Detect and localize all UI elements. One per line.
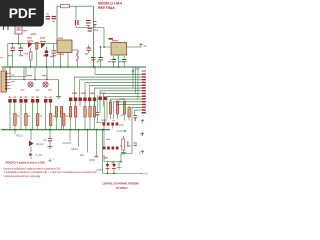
wire OK8 drop: [104, 126, 113, 147]
diode D7: [94, 22, 97, 25]
wire left vertical: [56, 6, 58, 44]
PDF badge: [0, 0, 44, 27]
resistor R1: [61, 5, 77, 20]
svg-text:GP1: GP1: [119, 124, 125, 127]
wire mid rail: [8, 43, 58, 45]
svg-text:Este tipo de configuração é us: Este tipo de configuração é usada para r…: [4, 166, 62, 170]
ground symbol in note header: [48, 159, 54, 162]
optocoupler OK4: [69, 98, 77, 102]
ground symbol in note line2: [45, 171, 48, 173]
junction dots ground bus: [9, 66, 119, 68]
label C6 value: [85, 53, 89, 54]
svg-text:+5V: +5V: [120, 113, 125, 117]
wire drops from ground bus: [10, 67, 47, 80]
wire stub arrow A: [116, 130, 126, 132]
capacitor C6b: [91, 58, 96, 68]
label K1 ref: [23, 30, 37, 35]
capacitor C7: [112, 56, 117, 67]
wire top rail: [57, 5, 94, 7]
optocoupler OK9: [111, 123, 118, 126]
ground symbol GND3: [48, 147, 53, 149]
node arrow up right1: [141, 120, 144, 124]
capacitor C16: [50, 44, 56, 67]
capacitor C13: [48, 130, 52, 147]
connector X1: [1, 68, 7, 92]
svg-text:A ampliação poderia ter a simb: A ampliação poderia ter a simbólica (: [4, 170, 45, 174]
label R2 value: [25, 53, 29, 54]
IC1 voltage regulator 7805: [111, 40, 127, 67]
svg-text:CENTRAL DO PARKING TRASEIRA: CENTRAL DO PARKING TRASEIRA: [102, 181, 139, 185]
wire SV1 fan: [75, 67, 142, 119]
wire regulator output: [127, 46, 142, 48]
resistor R3: [36, 42, 38, 67]
node VCC2 arrow: [132, 70, 135, 74]
svg-text:RE: RE: [80, 153, 84, 157]
svg-text:SETA: SETA: [71, 147, 78, 151]
node arrow right2: [141, 133, 144, 137]
label net bottom-right: [141, 172, 148, 176]
ground symbol GND2: [121, 153, 126, 155]
label D ref: [105, 157, 108, 159]
resistor R12: [93, 107, 95, 118]
optocoupler OK5: [79, 98, 87, 102]
wire resistor drops to bus: [15, 114, 129, 130]
capacitor C12: [134, 143, 138, 145]
label net F1: [63, 130, 73, 145]
capacitor C10: [19, 44, 24, 55]
optocoupler OK7: [99, 97, 107, 101]
svg-text:5V: 5V: [144, 45, 147, 48]
transistor Q4: [43, 82, 48, 87]
label Q1 ref: [27, 37, 45, 38]
svg-text:FAROL: FAROL: [63, 141, 73, 145]
label C5 value: [94, 30, 98, 31]
inductor L1: [72, 50, 78, 67]
label base resistor values: [21, 90, 53, 91]
wire lower right net: [103, 119, 133, 174]
wire stub arrow B: [128, 145, 132, 147]
label net F2: [71, 130, 79, 151]
wire node feed regulator: [76, 25, 111, 48]
resistor R19: [49, 114, 52, 126]
diode D5: [106, 164, 110, 169]
svg-text:P$1/2: P$1/2: [16, 134, 24, 138]
label values row: [8, 55, 57, 56]
ground symbol GND4: [117, 162, 122, 170]
label SV1 ref: [142, 70, 147, 72]
optocoupler OK8: [103, 123, 110, 126]
transistor Q1: [27, 41, 33, 67]
resistor R17: [25, 114, 28, 126]
svg-text:GND: GND: [96, 169, 102, 172]
junction dots row rail: [23, 79, 48, 81]
svg-text:mante que está ando em outra p: mante que está ando em outra pág.: [4, 174, 41, 178]
resistor R15: [123, 100, 126, 114]
capacitor C6: [87, 45, 92, 53]
diode D1: [109, 38, 114, 40]
capacitor C4 polarized: [86, 21, 91, 26]
label R24 value: [107, 139, 111, 140]
junction dots mid rail: [12, 43, 45, 45]
optocoupler OK2b: [31, 97, 39, 103]
resistor R7: [60, 107, 62, 118]
label lower resistor values: [17, 116, 69, 117]
capacitor C2: [52, 17, 57, 22]
wire pad drops mid: [71, 100, 101, 112]
resistor R11: [89, 107, 91, 118]
optocoupler OK6: [88, 98, 96, 102]
resistor R21: [122, 136, 129, 153]
node VCC arrow: [140, 44, 143, 48]
wire pad drops left: [10, 103, 51, 130]
svg-text:) e signif. que é conectado ao: ) e signif. que é conectado aos seus cor…: [49, 170, 97, 174]
resistor R10: [84, 107, 86, 118]
capacitor C3: [76, 20, 79, 25]
IC2 driver box: [57, 38, 72, 68]
capacitor C15 polarized: [45, 47, 48, 67]
label Q3 Q4 refs: [27, 75, 47, 76]
capacitor C5: [88, 29, 93, 31]
transistor Q5: [29, 130, 43, 153]
wire K1 to rail: [18, 34, 20, 44]
diode D6: [112, 164, 116, 169]
svg-text:F_NC: F_NC: [36, 153, 43, 157]
label IC ref: [95, 156, 99, 158]
svg-text:GND: GND: [89, 158, 95, 162]
wire bottom net: [103, 169, 141, 174]
optocoupler OK2: [19, 97, 27, 103]
junction dots bottom net: [107, 173, 115, 175]
wire below C14: [96, 95, 105, 123]
svg-text:+5V: +5V: [135, 67, 140, 71]
wire right vertical: [93, 6, 95, 67]
capacitor C6c: [98, 47, 103, 67]
svg-text:RELE: RELE: [36, 142, 43, 146]
resistor R8: [69, 107, 71, 118]
label net F3: [80, 130, 88, 157]
resistor R6: [55, 107, 57, 118]
capacitor C11: [134, 116, 138, 122]
connector SV1 pads: [142, 74, 146, 114]
capacitor C1: [46, 14, 51, 19]
wire SV1 bus drops: [133, 67, 138, 99]
label net P$1: [15, 130, 24, 138]
label 10k row: [72, 93, 105, 94]
capacitor C14: [96, 113, 100, 123]
resistor R20: [62, 114, 65, 126]
junction dot regulator input: [94, 46, 105, 68]
resistor R16: [14, 114, 17, 126]
wire rail left end drop: [7, 44, 9, 67]
svg-text:BY RÓGY: BY RÓGY: [116, 187, 128, 190]
wire main lower bus: [1, 129, 110, 131]
optocoupler OK1: [8, 97, 16, 103]
svg-text:GND: GND: [119, 97, 125, 101]
optocoupler OK3: [44, 97, 52, 103]
label OK refs: [104, 120, 115, 121]
relay K1 (partly hidden by badge): [4, 24, 23, 34]
svg-text:MÓDULO LM-4: MÓDULO LM-4: [98, 1, 122, 6]
resistor R15b: [128, 107, 130, 117]
junction dot bus: [14, 129, 97, 131]
transistor Q3: [28, 82, 33, 87]
wire X1 pin2: [7, 67, 26, 77]
optocoupler OK10: [103, 147, 119, 150]
node arrow right3: [141, 151, 144, 155]
diode D4: [30, 153, 33, 160]
resistor R18: [36, 114, 39, 126]
svg-text:G: G: [139, 151, 141, 155]
label net F4: [89, 130, 97, 162]
svg-text:LUZ: LUZ: [143, 172, 148, 176]
resistor R9: [74, 107, 76, 118]
wire transistor row rail: [7, 79, 58, 81]
resistor R13: [109, 100, 112, 114]
svg-text:RE9 TRAS: RE9 TRAS: [98, 6, 116, 10]
ground symbol GND1: [56, 80, 61, 99]
label cap values below regulator: [97, 61, 122, 62]
wire ground bus: [2, 66, 147, 68]
label X1 pin names: [12, 75, 15, 83]
capacitor C8: [122, 56, 127, 67]
label C13 value: [44, 140, 47, 141]
wire X1 pin stubs: [7, 74, 11, 89]
transistor Q2: [40, 42, 46, 49]
svg-text:PDF: PDF: [9, 6, 37, 21]
resistor R14: [116, 100, 119, 114]
junction dot lower right: [101, 129, 122, 163]
capacitor C9: [11, 44, 16, 67]
